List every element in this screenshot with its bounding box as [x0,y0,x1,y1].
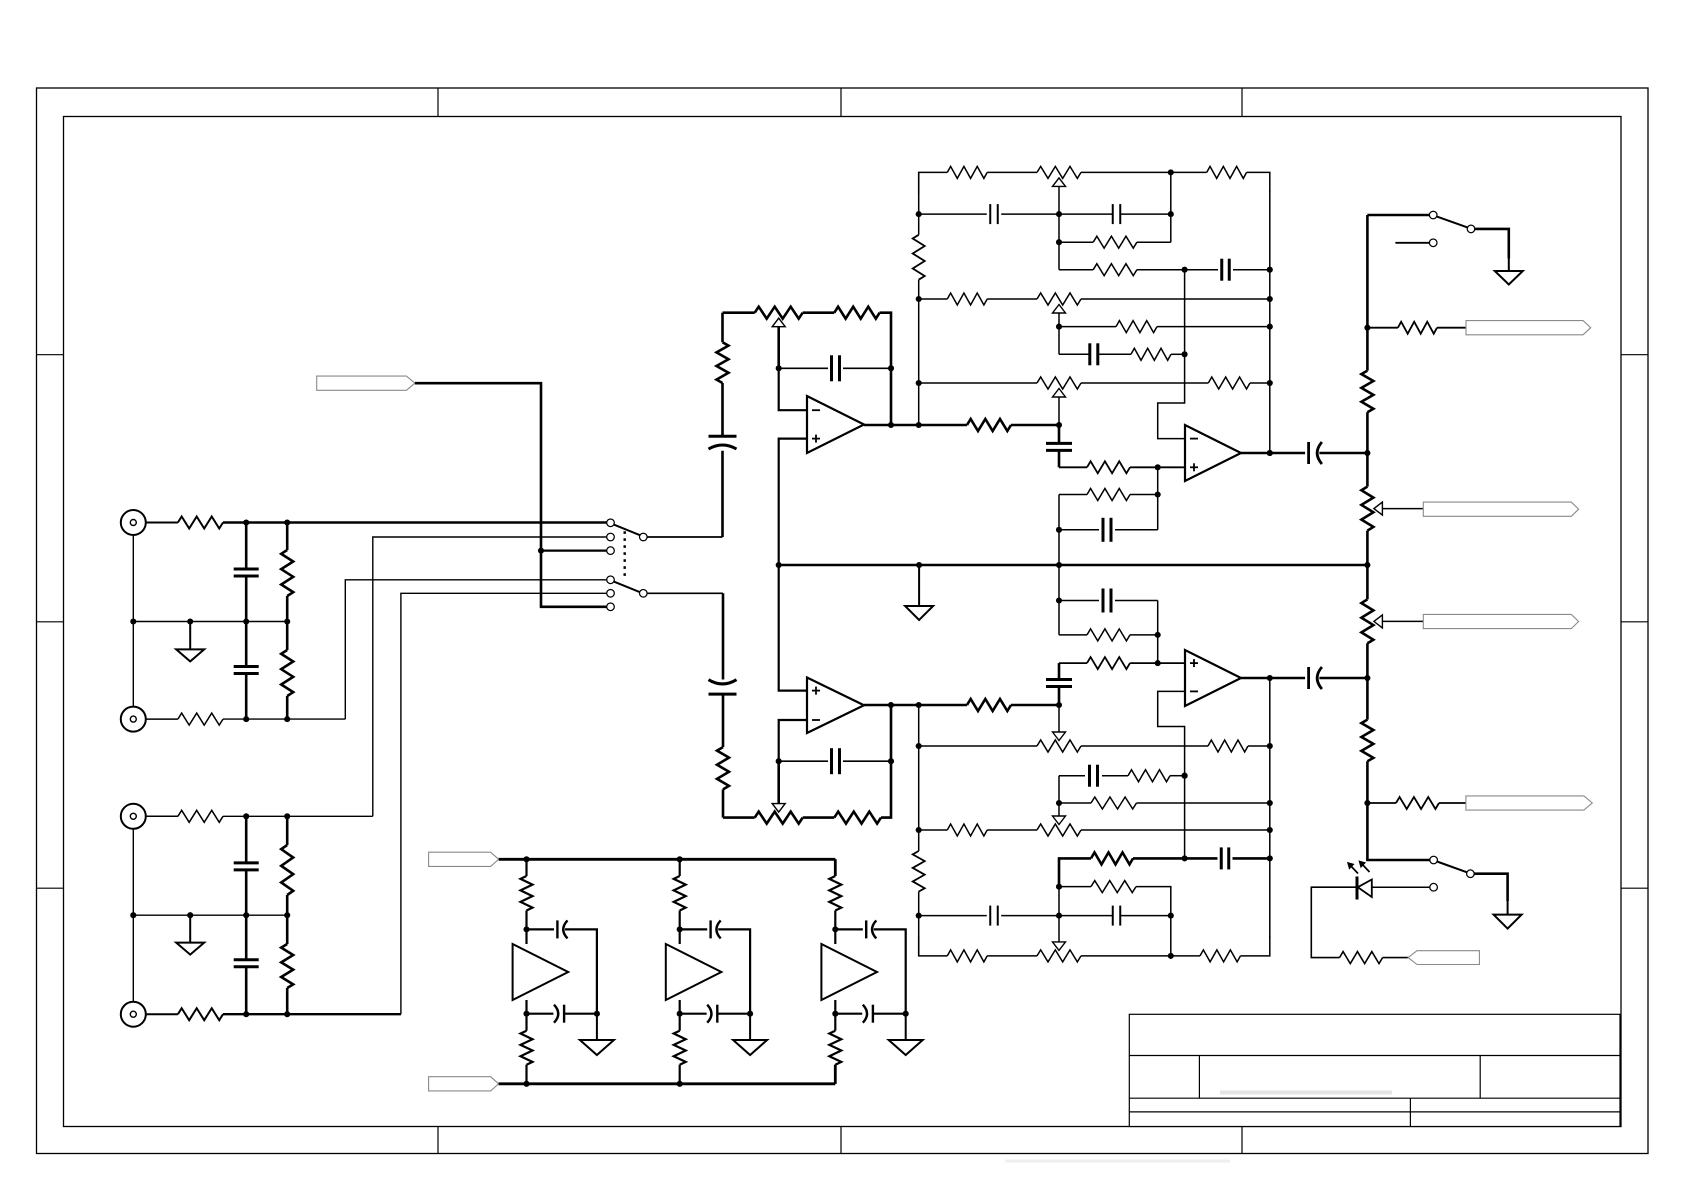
ground GND2 [176,915,204,954]
switch SW1A common [640,533,648,541]
connector J2 [121,707,146,732]
resistor R2 [281,523,293,622]
node dot U2 fb right [888,758,894,764]
capacitor C19 [1103,589,1111,613]
wire C14 to R30 [1102,775,1128,777]
node dots U1 output [888,422,922,428]
node dot right rail output [1267,450,1273,456]
feedback column to U4 minus [1158,691,1185,858]
left rail bottom dots [916,743,922,919]
capacitor C24b [707,1005,717,1023]
fb cap row U3 wire left [1059,529,1099,531]
wire J4 to R8 [146,1013,178,1015]
resistor R43 [1361,720,1373,762]
capacitor C5 polarized [709,436,737,449]
op-amp U2 [807,678,864,734]
node dot row6 [1056,324,1062,330]
resistor R34 [1091,881,1136,893]
wire SW2 common to gnd [1475,229,1509,259]
wire J1-J2 vertical [132,535,134,707]
capacitor C24c [863,1005,873,1023]
switch SW2 contact A [1429,211,1437,219]
capacitor C7 [990,204,998,224]
wire row3p right corner [1136,887,1171,916]
ground GND6c [889,1014,923,1055]
buffer cell a top lead [525,859,527,876]
op-amp U1 [807,396,864,453]
vertical center col r6-r7 [1058,327,1060,355]
resistor R11 [967,419,1011,431]
buffer bottom rail [499,1082,836,1085]
node dot row3p [1056,884,1062,890]
buffer cell c top lead [834,859,836,876]
cap row bottom a wire [527,1013,554,1015]
fb cap row U4 wire left [1059,600,1099,602]
net label flag F8 [429,852,499,866]
net label flag F7 [1408,951,1479,965]
resistor R22 [1087,489,1130,501]
node dots U2 output [888,702,922,708]
wire VR1 to R10 [803,311,835,314]
wire pot row U2 [723,816,755,819]
wire fbC U4 right [1115,600,1158,602]
wire C18 to node [1058,686,1061,705]
resistor R17 [947,293,987,305]
plus row U3 wire [1059,466,1087,468]
capacitor C3 [234,816,259,915]
capacitor C23b [711,920,721,938]
node dot U1 fb left [776,365,782,371]
cap row top c wire right [874,929,906,1013]
wiper wire VR2 [1058,186,1060,214]
LED D1 arrow 2 [1359,861,1369,872]
title block [1005,1014,1620,1161]
connector J3 [121,804,146,829]
node dot on flag net [538,548,544,554]
wire row8 right [1081,382,1208,384]
vertical col B bottom [1170,916,1172,956]
op-amp U4 [1185,650,1241,706]
left rail bottom segment [918,705,920,956]
op-amp U3 [1185,425,1241,481]
node dot rowD rail [1267,800,1273,806]
buffer cell a bottom lead [525,1065,527,1084]
wiper wire VR6 [1382,620,1423,622]
node dot U2 fb left [776,758,782,764]
resistor R42 [1361,371,1373,413]
potentiometer VR2 [1037,166,1081,186]
wire LED cathode loop [1311,887,1357,957]
capacitor C12 [1103,518,1111,542]
node dot row7 [1182,351,1188,357]
node dot row2 mid [1056,211,1062,217]
capacitor C10 [1090,343,1098,365]
switch SW1B lever [614,582,640,593]
wire input row 2 [223,718,345,720]
node dot row5 rail [1267,296,1273,302]
resistor R41 [967,699,1011,711]
border inner frame [64,117,1622,1127]
node dot row4p rail [1267,855,1273,861]
buffer cell c bottom lead [834,1065,836,1084]
wire C7 to node [1001,213,1059,215]
resistor R14 [1207,166,1247,178]
vert JG col U3 [1157,467,1159,530]
resistor R48a [521,1031,533,1065]
wire fb row U1 right [843,367,891,369]
capacitor C8 [1113,204,1121,224]
node dot center col bottom [1056,702,1062,708]
wire input row 3 [223,815,373,817]
wiper wire VR1 [777,327,780,369]
wire R20 to rail [1250,382,1270,384]
capacitor C9 [1222,259,1230,281]
wire R35 to VR9 [987,955,1037,957]
wire R40 corner up [881,705,891,818]
wire R22 corner [1130,494,1158,496]
node dot row2p mid [1056,913,1062,919]
net label flag F9 [429,1077,499,1091]
node dot fbC U4 [1056,597,1062,603]
potentiometer VR10 [755,804,803,824]
vert MC rail to fr2 [1058,565,1060,635]
node dots mid rail lower [130,912,290,918]
node dots row 3 [243,813,290,819]
wire C15 to rail [1233,857,1270,860]
wire U4 output [1241,677,1305,680]
wire R21 to U3 plus [1130,466,1185,468]
capacitor C16 [990,906,998,926]
wire R41 to node [1011,704,1059,707]
wire R38 corner [1130,634,1158,636]
switch SW1A contact 3 [607,547,615,555]
wire U1 output row [864,424,967,427]
potentiometer VR8 [1037,816,1081,836]
mid rail wire [779,564,1368,567]
node dot U1 fb right [888,365,894,371]
wire row4p to node [1133,857,1218,860]
wire input row 4 [223,1013,401,1015]
wire row3 riser to switch [373,537,607,816]
LED D1 triangle [1358,880,1372,898]
wiper wire VR4 [1058,397,1060,425]
wire R10 corner down [880,313,891,425]
resistor R20 [1208,377,1250,389]
rowC wire left [1059,775,1085,777]
mid rail dots [776,562,1371,568]
net label MUTE flag [317,376,415,390]
resistor R7 [281,915,293,1014]
resistor R13 [947,166,987,178]
node dot fbR U3 [1155,491,1161,497]
fb resistor row U3 wire [1059,494,1087,496]
resistor R3 [281,622,293,720]
switch SW1A contact 2 [607,533,615,541]
wire LED to SW3 contact B [1372,886,1430,888]
node dot row4p [1182,855,1188,861]
resistor R40 [834,812,881,824]
node dot fb col rowC [1182,773,1188,779]
capacitor C13 output top [1309,442,1322,464]
resistor R31 [1091,797,1137,809]
capacitor C17 [1113,906,1121,926]
pot column top corner [1366,215,1369,328]
series cap col bottom [1058,663,1061,680]
capacitor C22 [832,748,840,774]
node dot pot col bottom out [1364,675,1370,681]
LED D1 cathode bar [1356,877,1359,900]
wire U2 minus input [779,720,807,761]
wire row1p to R36 [1171,955,1200,957]
capacitor C6 [832,355,840,381]
wire C13 to pot col [1319,452,1367,455]
row3p wire [1059,886,1091,888]
switch SW1A contact 1 [607,519,615,527]
wire U2 plus input [779,565,807,691]
potentiometer VR4 [1037,377,1081,397]
resistor R44 [1398,322,1437,334]
resistor R9 [717,313,729,437]
wire R13 to VR2 [987,171,1037,173]
capacitor C4 [234,915,259,1014]
capacitor C15 [1221,847,1229,869]
resistor R35 [947,950,987,962]
buffer cell c bottom column [834,1000,836,1031]
node dots row 2 [243,716,290,722]
resistor R39 [717,694,729,818]
resistor R36 [1200,950,1241,962]
capacitor C24a [554,1005,564,1023]
resistor R48b [674,1031,686,1065]
buffer bottom rail dots [523,1081,682,1087]
vert MC fbR to rail [1058,495,1060,566]
ground GND1 [176,622,204,662]
buffer cell b wire to cap node [679,911,681,945]
connector J1 [121,510,146,535]
capacitor C23c [866,920,876,938]
wiper wire VR5 [1382,508,1423,510]
switch SW1B common [640,590,648,598]
node dot center col top [1056,422,1062,428]
op-amp U5a [513,944,569,1000]
wire C17 to col [1120,915,1171,917]
wire row3 right [1137,241,1171,243]
wire U1 minus input [779,368,807,410]
wire U3 output [1241,452,1305,455]
resistor R28 on left rail [913,851,925,892]
wire U2 output row [864,704,967,707]
wiper wire VR7 [1058,705,1060,732]
resistor R21 [1087,461,1130,473]
switch coupling dashed link [624,531,626,577]
vertical center col c-d [1058,776,1060,803]
buffer cell b bottom column [679,1000,681,1031]
switch SW3 contact B [1430,883,1438,891]
resistor R48c [829,1031,841,1065]
wire SW2 contact B stub [1395,242,1429,244]
node dots row 4 [243,1011,290,1017]
ground GND3 [905,565,933,620]
switch SW1B contact 6 [607,603,615,611]
resistor R6 [281,816,293,915]
wire VR10 to R40 [803,816,835,819]
resistor R10 [834,307,879,319]
pot column seg3 [1366,412,1369,486]
wire R11 to node [1011,424,1059,427]
wire rowE right [1081,829,1270,831]
resistor R37 [1087,657,1130,669]
switch SW3 contact A [1430,856,1438,864]
cap row bottom c wire [835,1013,862,1015]
node dots row 1 [243,519,290,525]
cap row top b wire right [718,929,750,1013]
wire R37 to U4 plus [1130,662,1185,664]
row4p wire left [1059,858,1091,886]
node dot buf a top [523,926,529,932]
node dot fbC U3 [1056,527,1062,533]
wire C16 to node [1001,915,1059,917]
node dot buf c top [832,926,838,932]
wire flag3 row [1367,327,1398,329]
wire row7 right [1171,353,1185,355]
cap row bottom b wire right [717,1013,750,1015]
pot column seg6 [1366,761,1369,803]
switch SW1A lever [614,525,640,536]
node dots mid rail upper [130,618,290,624]
node dot buf b bottom [677,1011,683,1017]
wire C8 to col [1120,213,1171,215]
resistor R33 [1091,852,1133,864]
net label flag F6 [1466,796,1592,810]
rowB wire left [919,745,1037,747]
wiper wire VR10 [777,761,780,803]
switch SW3 lever [1437,862,1467,873]
wire row1 right corner [1247,172,1270,192]
wire C10 to R19 [1098,353,1131,355]
wire fbC U3 right [1115,529,1158,531]
node dot pot col flag3 [1364,325,1370,331]
wire VR9 to node [1081,955,1171,957]
row2p wire left [919,915,987,917]
resistor R1 [178,517,223,529]
resistor R46 [1340,952,1383,964]
switch SW2 contact B [1429,239,1437,247]
resistor R8 [178,1008,223,1020]
switch SW2 lever [1437,216,1468,227]
node dot rowE rail [1267,827,1273,833]
wire flag net to contact 3 [541,549,607,551]
wire input row 1 to switch [223,521,607,524]
wire flag6 row [1367,802,1396,804]
vert JG col U4 [1157,601,1159,664]
node dot buf c bottom [832,1011,838,1017]
wire SW1A common out [647,451,722,537]
node dot row2 right [1168,211,1174,217]
wire U1 plus input [779,439,807,565]
switch SW1B contact 5 [607,590,615,598]
wire mid rail upper [133,621,287,623]
row6 wire left [1059,326,1116,328]
capacitor C1 [234,523,259,622]
wire C11 to plus row [1058,450,1061,467]
resistor R4 [178,713,223,725]
net label flag F3 [1466,321,1591,335]
wire fb row U2 right [843,760,891,762]
pot column bottom corner [1367,803,1429,860]
wiper wire VR3 [1058,313,1060,327]
resistor R38 [1087,629,1130,641]
resistor R18 [1116,321,1157,333]
ground GND4 [1495,259,1523,285]
buffer top rail dots [523,856,682,862]
node dot rowC [1182,773,1188,779]
ground GND6b [733,1014,767,1055]
node dot buf b gnd col [747,1011,753,1017]
row1p wire left [919,936,948,956]
wire J2 to R4 [146,718,178,720]
net label flag F5 [1423,614,1578,628]
capacitor C14 [1090,765,1098,787]
net label flag F4 [1423,502,1578,516]
node dot row4 rail [1267,267,1273,273]
wire row2 riser to switch [345,580,606,719]
potentiometer VR3 [1037,293,1081,313]
left rail top dots [916,211,922,386]
row3 wire left [1059,241,1093,243]
buffer cell a wire to cap node [525,911,527,945]
switch SW3 common [1467,870,1475,878]
buffer cell b top lead [679,859,681,876]
resistor R19 [1131,348,1171,360]
resistor R45 [1396,797,1439,809]
potentiometer VR9 [1037,942,1081,962]
resistor R29 [1208,740,1248,752]
LED D1 arrow 1 [1348,863,1358,874]
capacitor C2 [234,622,259,720]
node dot buf b top [677,926,683,932]
wiper wire VR8 [1058,803,1060,816]
node dot row4 [1182,267,1188,273]
cap row top b wire [680,928,708,930]
cap row bottom a wire right [564,1013,597,1015]
wire R44 to flag [1437,327,1466,329]
resistor R30 [1128,770,1170,782]
wire row1 to R14 [1171,171,1207,173]
wire rowD right [1137,802,1270,804]
fb resistor row U4 wire [1059,634,1087,636]
potentiometer VR5 [1361,487,1382,531]
cap row top a wire [527,928,555,930]
row5 wire left [919,298,948,300]
switch SW2 common [1467,225,1475,233]
wire VR2 to node [1081,171,1171,173]
buffer rail bottom corner [834,1065,837,1084]
plus row U4 wire [1059,662,1087,664]
row1 wire left [919,172,948,194]
wire row2 to C8 [1059,213,1113,215]
potentiometer VR6 [1361,599,1382,643]
right rail top [1269,190,1271,453]
node dot rowB rail [1267,743,1273,749]
resistor R47a [521,876,533,911]
node dot row1p [1168,953,1174,959]
wire pot row U1 [723,311,755,314]
rowD wire left [1059,802,1091,804]
wire rowC right [1170,775,1185,777]
series cap col top [1058,425,1061,443]
wire R45 to flag [1439,802,1466,804]
capacitor C20 output bottom [1309,667,1322,689]
